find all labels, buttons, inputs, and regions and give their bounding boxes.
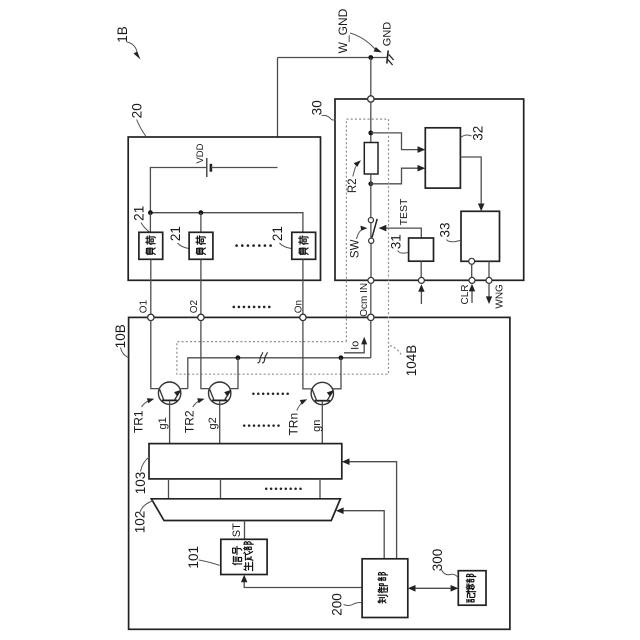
label TR2 — [183, 398, 205, 433]
svg-text:R2: R2 — [347, 178, 359, 193]
connector 103-102 g2 — [220, 479, 222, 499]
wire TRn base to box103 — [321, 402, 323, 444]
dots between O2 and On — [233, 306, 271, 309]
wire box31 to bottom node — [420, 261, 422, 277]
wire junction to box32 input 2 — [371, 168, 420, 184]
dots between TR2 and TRn — [252, 392, 289, 395]
wire box32 to box33 — [460, 157, 484, 211]
CLR node on box30 bottom — [469, 277, 475, 283]
wire bus to load 2 — [200, 213, 202, 233]
svg-text:VDD: VDD — [195, 143, 206, 163]
svg-text:TR1: TR1 — [131, 410, 145, 433]
WNG node on box30 bottom — [486, 277, 492, 283]
input stub with up arrow into node — [418, 284, 424, 304]
node on box30 top — [368, 96, 374, 102]
dashed region 104B outline — [177, 119, 389, 374]
node O1 — [148, 314, 154, 320]
svg-text:200: 200 — [330, 593, 345, 616]
load box 21-2 — [189, 232, 213, 259]
svg-text:31: 31 — [388, 234, 403, 249]
wire TR1 to Io bus — [181, 388, 188, 390]
label 10B — [113, 324, 128, 357]
svg-text:1B: 1B — [115, 26, 130, 43]
junction load bus 2 — [199, 210, 204, 215]
svg-text:SW: SW — [349, 239, 361, 258]
wire W_GND horizontal — [278, 57, 388, 59]
ground symbol — [387, 51, 394, 66]
wire control to box102 with arrow — [336, 507, 384, 558]
junction TR2 on Io bus — [236, 355, 241, 360]
wire control to box101 with up arrow — [241, 575, 362, 588]
svg-text:101: 101 — [186, 546, 201, 569]
svg-text:33: 33 — [437, 222, 452, 237]
wire VDD riser — [277, 58, 279, 168]
node On — [300, 314, 306, 320]
box200 kanji 制御部 — [378, 572, 388, 603]
load box 21-1 — [139, 232, 163, 259]
Io bus wire — [188, 358, 371, 389]
svg-text:gn: gn — [311, 420, 323, 432]
wire Ocm node to box30 node — [370, 283, 372, 314]
wire R2 to switch — [370, 174, 372, 218]
label 20 — [129, 103, 146, 136]
node Ocm IN — [368, 314, 374, 320]
label 200 — [330, 593, 362, 616]
load 1 kanji 負荷 — [146, 236, 156, 255]
transistor TR1 — [158, 382, 180, 404]
svg-text:g2: g2 — [207, 417, 219, 429]
svg-text:TR2: TR2 — [183, 410, 197, 433]
dots between 103 and 102 — [265, 488, 302, 491]
wire bus to load 1 — [149, 213, 151, 233]
CLR stub with up arrow — [469, 284, 475, 303]
svg-text:21: 21 — [132, 206, 147, 221]
label 21 (load 1) — [132, 206, 150, 232]
node junction on W_GND wire — [368, 55, 373, 60]
box 33 — [461, 211, 500, 261]
double arrow 200-300 — [408, 585, 459, 592]
junction above R2 — [368, 131, 373, 136]
label 33 — [437, 222, 460, 241]
transistor TRn — [311, 382, 334, 404]
box 10B — [129, 317, 510, 629]
label 102 — [133, 501, 154, 534]
junction below R2 — [368, 181, 373, 186]
label 1B — [115, 26, 140, 59]
box 102 trapezoid — [151, 499, 340, 521]
box 103 — [149, 444, 342, 479]
junction TRn on Io bus — [339, 355, 344, 360]
wire TR2 to Io bus — [231, 358, 238, 389]
wire control to box103 with arrow — [342, 458, 397, 558]
label TR1 — [131, 398, 154, 433]
svg-text:On: On — [294, 300, 305, 313]
wire On to TRn — [303, 321, 312, 389]
wire battery left to bus — [150, 168, 206, 213]
svg-text:103: 103 — [133, 472, 148, 495]
label 31 — [388, 234, 407, 253]
label 300 — [430, 549, 458, 578]
label W_GND — [336, 8, 382, 53]
wire load1 to node O1 — [150, 259, 152, 314]
connector 103-102 gn — [319, 479, 321, 499]
svg-text:20: 20 — [129, 103, 144, 118]
Io current arrow — [344, 337, 367, 353]
wire box33 node to CLR node — [471, 264, 473, 277]
svg-text:21: 21 — [270, 226, 285, 241]
box101 kanji 信号生成部 — [233, 542, 254, 571]
wire node to R2 — [370, 102, 372, 142]
node below box31 — [418, 277, 424, 283]
dots between loads — [235, 244, 272, 247]
box 20 — [128, 137, 320, 280]
label 32 — [461, 126, 486, 141]
node O2 — [198, 314, 204, 320]
svg-text:GND: GND — [382, 22, 394, 47]
wire 102 to 101 (ST) — [244, 521, 246, 540]
wire O1 to TR1 — [151, 321, 160, 389]
box 31 — [409, 238, 434, 261]
dots between g2 and gn — [243, 424, 280, 427]
wire TR1 base to box103 — [169, 401, 171, 443]
label 101 — [186, 546, 219, 569]
box 101 — [221, 539, 267, 574]
box 200 — [362, 559, 408, 618]
wire load2 to node O2 — [200, 259, 202, 314]
label 104B — [390, 345, 419, 377]
wire TEST from box31 to switch — [379, 225, 422, 238]
break symbol on Io bus — [258, 352, 268, 363]
svg-text:102: 102 — [133, 511, 148, 534]
junction load bus 1 — [148, 210, 153, 215]
svg-text:30: 30 — [310, 100, 325, 115]
label SW — [349, 226, 367, 258]
label R2 — [347, 160, 361, 193]
svg-text:21: 21 — [168, 226, 183, 241]
svg-text:TRn: TRn — [287, 413, 301, 436]
wire TRn to Io bus — [333, 358, 341, 389]
connector 103-102 g1 — [168, 479, 170, 499]
wire Ocm node down to Io bus — [370, 321, 372, 358]
label 21 (load 2) — [168, 226, 189, 248]
wire load bus — [150, 213, 303, 233]
label 21 (load n) — [270, 226, 291, 248]
box 30 — [335, 99, 524, 280]
svg-text:g1: g1 — [157, 417, 169, 429]
svg-text:WNG: WNG — [494, 284, 505, 309]
svg-text:32: 32 — [470, 126, 485, 141]
svg-text:TEST: TEST — [398, 198, 410, 225]
label TRn — [287, 399, 308, 435]
svg-text:O1: O1 — [139, 299, 150, 313]
svg-text:O2: O2 — [189, 299, 200, 313]
wire box33 to WNG node — [488, 261, 490, 277]
wire SW to box30 bottom node — [370, 243, 372, 277]
WNG output arrow down — [486, 283, 492, 304]
wire O2 to TR2 — [201, 321, 210, 389]
load n kanji 負荷 — [299, 236, 309, 255]
box300 kanji 記憶部 — [466, 574, 476, 602]
svg-text:CLR: CLR — [460, 284, 471, 304]
wire from junction down to box 30 — [370, 58, 372, 100]
transistor TR2 — [209, 382, 232, 404]
load box 21-n — [292, 232, 316, 259]
switch SW — [368, 218, 377, 244]
svg-text:Ocm IN: Ocm IN — [359, 283, 370, 317]
node on box33 bottom — [469, 258, 475, 264]
wire battery right to riser — [211, 167, 278, 169]
wire loadn to node On — [302, 259, 304, 314]
label 103 — [133, 457, 149, 494]
svg-text:W_GND: W_GND — [336, 8, 350, 53]
box 32 — [425, 128, 460, 188]
svg-text:104B: 104B — [404, 345, 419, 377]
wire junction to box32 input 1 — [371, 133, 420, 150]
box 300 — [458, 571, 486, 606]
svg-text:ST: ST — [231, 523, 243, 537]
node Ocm on box30 bottom edge — [368, 277, 374, 283]
battery V1 — [207, 158, 211, 177]
load 2 kanji 負荷 — [196, 236, 206, 255]
resistor R2 — [364, 143, 378, 175]
svg-text:10B: 10B — [113, 324, 128, 348]
svg-text:300: 300 — [430, 549, 445, 572]
label 30 — [310, 100, 336, 120]
svg-text:Io: Io — [349, 341, 361, 350]
wire TR2 base to box103 — [219, 401, 221, 443]
